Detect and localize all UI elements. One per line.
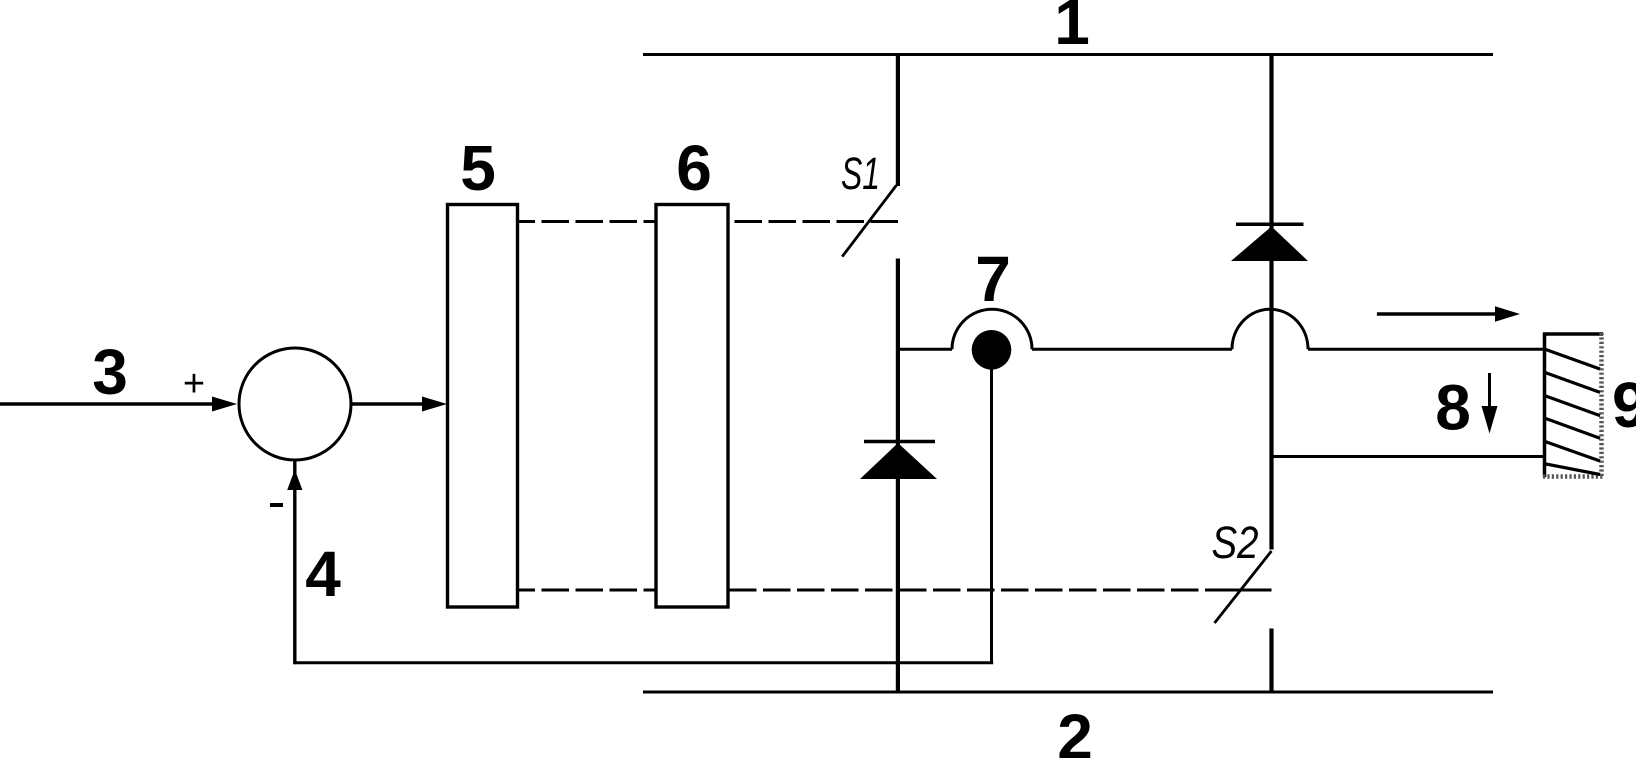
wire: mid rail to load top terminal <box>1308 348 1545 351</box>
dashed wire: control link block 6 to switch S2 <box>728 589 1199 592</box>
diode D1 cathode bar <box>864 440 935 444</box>
switch S1 upper contact (from top bus) <box>896 55 900 187</box>
minus sign at summing junction feedback input <box>270 503 283 507</box>
wire: bottom DC bus (net 2) <box>643 691 1493 694</box>
wire: mid rail between hops <box>1032 348 1232 351</box>
wire: feedback vertical up to summing junction <box>293 459 296 664</box>
svg-text:S2: S2 <box>1212 517 1259 568</box>
dashed wire: control link block 6 to switch S1 <box>728 220 898 223</box>
wire: mid rail from left leg to sensor hop <box>898 348 952 351</box>
wire: load bottom terminal branch <box>1272 455 1546 458</box>
switch S1 blade <box>842 185 896 256</box>
load 9 body (hatched block) <box>1543 333 1604 478</box>
arrow: load current direction (down) <box>1482 373 1498 434</box>
wire: S2 lower contact to bottom bus <box>1269 629 1273 693</box>
svg-text:6: 6 <box>676 132 712 204</box>
arrowhead: feedback into summing junction (pointing up) <box>287 470 302 491</box>
node: current sensor 7 tap (filled dot) <box>972 330 1012 370</box>
block U5 (controller block) <box>448 205 518 608</box>
svg-text:S1: S1 <box>841 148 880 199</box>
block U6 (driver block) <box>656 205 728 608</box>
svg-text:8: 8 <box>1435 372 1471 444</box>
wire: input reference signal (net 3) <box>0 402 218 406</box>
svg-text:3: 3 <box>92 336 128 408</box>
arrowhead: into block 5 <box>422 397 447 412</box>
wire hop: arc over right leg <box>1232 309 1308 349</box>
wire: top DC bus (net 1) <box>643 53 1493 56</box>
wire: sensor tap vertical down <box>990 350 993 663</box>
diode D2 (pointing up) <box>1231 227 1308 262</box>
wire: summing junction output to block 5 <box>351 402 428 406</box>
wire: feedback run back to summing junction <box>295 661 993 664</box>
svg-text:9: 9 <box>1612 369 1636 441</box>
switch S2 blade <box>1215 551 1272 623</box>
svg-text:5: 5 <box>460 132 496 204</box>
wire: right leg from top bus down to switch S2 <box>1269 55 1273 550</box>
svg-text:2: 2 <box>1057 701 1093 758</box>
diode D2 cathode bar <box>1236 222 1304 226</box>
dashed wire: final long dash reaching switch S2 <box>1205 589 1272 592</box>
svg-text:+: + <box>183 363 205 405</box>
arrow: output current direction (to the right) <box>1377 306 1520 322</box>
summing junction (comparator circle) <box>239 348 351 460</box>
load 9 hatching <box>1545 349 1600 474</box>
wire hop: arc over current sensor 7 <box>952 309 1032 349</box>
arrowhead: input into summing junction <box>212 397 237 412</box>
svg-text:1: 1 <box>1054 0 1090 58</box>
svg-text:7: 7 <box>975 243 1011 315</box>
wire: S1 lower contact / left leg down to bottom bus <box>896 259 900 693</box>
dashed wire: control link block 5 to block 6 (bottom) <box>517 589 656 592</box>
diode D1 (freewheeling, pointing up) <box>860 443 937 479</box>
svg-text:4: 4 <box>305 538 341 610</box>
dashed wire: control link block 5 to block 6 (top) <box>517 220 656 223</box>
